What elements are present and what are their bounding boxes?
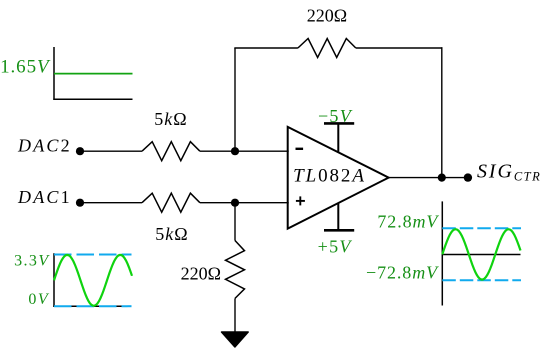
op-amp positive supply stem: [337, 203, 339, 231]
op-amp negative supply stem: [337, 123, 339, 152]
plot 3 zero axis: [442, 254, 520, 256]
wire feedback right vertical: [441, 47, 443, 177]
resistor R2 5kOhm zigzag: [142, 193, 200, 212]
plot 3 bottom level dashed line -72.8mV: [442, 279, 521, 281]
plot 3 (output signal) vertical axis: [441, 201, 443, 305]
svg-text:72.8mV: 72.8mV: [377, 212, 439, 232]
wire DAC2 to R1: [80, 150, 142, 152]
plot 3 sine trace: [442, 229, 520, 279]
svg-text:3.3V: 3.3V: [14, 253, 50, 270]
junction node A (inverting input): [231, 147, 239, 155]
svg-text:−72.8mV: −72.8mV: [366, 262, 439, 282]
plot 2 sine trace: [54, 255, 132, 306]
resistor R3 220Ohm feedback zigzag: [298, 39, 356, 58]
plot 1 constant 1.65V trace: [54, 73, 133, 75]
ground symbol: [222, 332, 249, 347]
resistor R1 5kOhm zigzag: [142, 142, 200, 161]
plot 1 (DAC2 signal) vertical axis: [53, 47, 55, 100]
plot 2 bottom axis black line: [53, 305, 131, 307]
svg-text:+5V: +5V: [318, 236, 353, 256]
wire DAC1 to R2: [80, 202, 142, 204]
svg-text:SIGCTR: SIGCTR: [477, 160, 541, 183]
wire op-amp output: [389, 177, 468, 179]
node DAC2 terminal dot: [76, 147, 84, 155]
svg-text:DAC1: DAC1: [17, 187, 72, 207]
plot 1 horizontal axis: [53, 98, 132, 100]
svg-text:220Ω: 220Ω: [307, 5, 347, 25]
svg-text:5kΩ: 5kΩ: [155, 224, 188, 244]
op-amp U1 plus input marker: [296, 196, 305, 205]
svg-text:220Ω: 220Ω: [181, 263, 221, 283]
resistor R4 220Ohm vertical zigzag: [226, 241, 245, 299]
plot 2 bottom level dashed line 0V: [54, 305, 132, 307]
node DAC1 terminal dot: [76, 199, 84, 207]
plot 3 top level dashed line 72.8mV: [442, 227, 521, 229]
wire feedback top left: [234, 47, 298, 49]
svg-text:5kΩ: 5kΩ: [154, 109, 187, 129]
junction node B (non-inverting input): [231, 199, 239, 207]
op-amp U1 minus input marker: [296, 148, 304, 150]
svg-text:1.65V: 1.65V: [0, 56, 51, 77]
wire feedback top right: [356, 47, 443, 49]
wire feedback left vertical: [234, 48, 236, 151]
wire node B to R4: [234, 203, 236, 241]
plot 2 top level dashed line 3.3V: [54, 254, 132, 256]
svg-text:TL082A: TL082A: [293, 165, 366, 186]
svg-text:0V: 0V: [28, 291, 49, 308]
op-amp U1 triangle: [288, 127, 389, 229]
svg-text:DAC2: DAC2: [17, 136, 72, 156]
junction node output/feedback: [438, 174, 446, 182]
svg-text:−5V: −5V: [318, 106, 353, 126]
op-amp positive supply bar: [324, 229, 354, 232]
wire R2 to non-inverting input: [200, 202, 289, 204]
wire R1 to inverting input: [200, 150, 289, 152]
node SIG_CTR terminal dot: [464, 173, 472, 181]
wire R4 to ground: [234, 298, 236, 333]
plot 2 (DAC1 signal) vertical axis: [53, 253, 55, 307]
op-amp negative supply bar: [324, 122, 354, 125]
